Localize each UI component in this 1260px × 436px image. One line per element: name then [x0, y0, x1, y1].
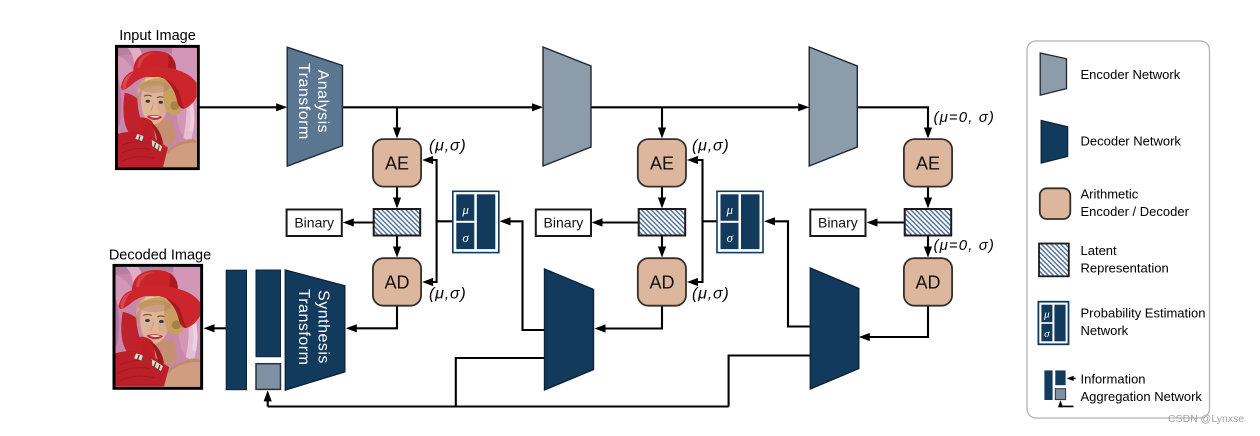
svg-text:Representation: Representation	[1081, 261, 1169, 276]
arrowhead into synthesis	[346, 324, 357, 332]
wire encoder2 to encoder3	[591, 106, 801, 108]
wire decoder2 aggregation branch	[456, 358, 545, 407]
latent3	[905, 209, 952, 236]
svg-text:Binary: Binary	[294, 215, 334, 231]
svg-text:μ: μ	[726, 202, 734, 217]
AD2	[638, 258, 686, 306]
arrowhead into mu-sigma1	[500, 217, 511, 225]
legend encoder icon	[1040, 53, 1066, 95]
svg-text:(μ,σ): (μ,σ)	[692, 138, 730, 155]
wire mu-sigma2 output to AE2/AD2	[703, 220, 718, 222]
arrowheads AE to latent to AD stage2	[658, 198, 666, 209]
arrowhead into decoded image	[204, 324, 215, 332]
svg-text:AE: AE	[916, 153, 940, 173]
wire AD2 to decoder2	[602, 306, 662, 329]
svg-text:μ: μ	[1043, 309, 1050, 321]
AE3	[904, 139, 952, 187]
svg-text:AD: AD	[649, 272, 674, 292]
legend decoder icon	[1041, 121, 1067, 164]
svg-text:σ: σ	[462, 230, 469, 245]
arrowhead into encoder3	[798, 103, 809, 111]
wire up into gray aggregation box	[267, 398, 269, 407]
svg-text:Latent: Latent	[1081, 243, 1118, 258]
arrowhead into AE1 top	[393, 128, 401, 139]
svg-text:(μ,σ): (μ,σ)	[692, 286, 730, 303]
svg-text:Encoder Network: Encoder Network	[1081, 67, 1181, 82]
svg-text:Aggregation Network: Aggregation Network	[1081, 389, 1203, 404]
svg-text:AD: AD	[384, 272, 409, 292]
mu-sigma network 1	[453, 191, 499, 252]
arrowhead into decoder2	[595, 324, 606, 332]
svg-text:σ: σ	[1044, 328, 1050, 340]
wire mu-sigma1 output to AE1/AD1	[437, 220, 453, 222]
arrowheads mu-sigma1 into AE1/AD1	[422, 156, 433, 164]
arrowhead into AE3 top	[924, 128, 932, 139]
arrowheads AE to latent to AD stage1	[393, 198, 401, 209]
svg-text:AE: AE	[650, 153, 674, 173]
wire bottom aggregation bus	[268, 405, 729, 407]
arrowhead into decoder3	[859, 333, 870, 341]
svg-text:(μ=0, σ): (μ=0, σ)	[934, 109, 996, 126]
AE2	[638, 139, 686, 187]
legend probability estimation icon	[1038, 302, 1068, 345]
svg-text:Transform: Transform	[295, 289, 312, 366]
svg-text:Decoder Network: Decoder Network	[1081, 134, 1182, 149]
arrowhead into mu-sigma2	[764, 217, 775, 225]
AE1	[373, 139, 421, 187]
wire input image to analysis transform	[199, 106, 279, 108]
decoder3	[810, 268, 859, 389]
svg-text:Encoder / Decoder: Encoder / Decoder	[1081, 204, 1190, 219]
arrowhead into AE2 top	[658, 128, 666, 139]
svg-text:Probability Estimation: Probability Estimation	[1081, 306, 1206, 321]
synthesis transform	[285, 270, 345, 390]
arrowheads mu-sigma2 into AE2/AD2	[687, 156, 698, 164]
input image	[117, 28, 199, 169]
arrowhead into gray aggregation box	[264, 390, 272, 401]
binary1	[287, 210, 342, 237]
arrowhead into analysis	[276, 103, 287, 111]
svg-text:(μ,σ): (μ,σ)	[429, 286, 467, 303]
AD1	[373, 258, 421, 306]
decoded image	[109, 248, 211, 389]
aggregation bar2	[256, 270, 281, 357]
svg-text:CSDN @Lynxse: CSDN @Lynxse	[1168, 413, 1244, 425]
wire bar1 to decoded image	[211, 327, 226, 329]
svg-text:Decoded Image: Decoded Image	[109, 248, 211, 264]
wire latent3 to binary3	[874, 221, 905, 223]
svg-text:μ: μ	[461, 202, 469, 217]
arrowhead into encoder2	[532, 103, 543, 111]
arrowhead into binary3	[867, 218, 878, 226]
wire AE1 to latent1	[396, 187, 398, 201]
wire AD1 to synthesis	[353, 306, 397, 329]
wire decoder2 to mu-sigma1 input	[507, 221, 545, 330]
svg-text:(μ,σ): (μ,σ)	[429, 138, 467, 155]
encoder3	[809, 47, 857, 166]
analysis transform	[287, 47, 342, 166]
legend panel	[1027, 41, 1210, 418]
wire drop to AE1	[396, 107, 398, 131]
wire decoder3 aggregation branch	[729, 356, 811, 407]
arrowhead into binary2	[592, 218, 603, 226]
latent2	[639, 209, 686, 236]
wire drop to AE2	[661, 107, 663, 131]
svg-text:Binary: Binary	[818, 215, 858, 231]
wire latent1 to binary1	[350, 221, 374, 223]
svg-text:(μ=0, σ): (μ=0, σ)	[934, 237, 996, 254]
decoder2	[545, 269, 594, 390]
svg-text:Information: Information	[1081, 371, 1146, 386]
wire latent2 to AD2	[661, 236, 663, 251]
svg-text:Synthesis: Synthesis	[314, 290, 331, 364]
svg-text:AE: AE	[385, 153, 409, 173]
arrowheads AE to latent to AD stage3	[924, 198, 932, 209]
wire latent2 to binary2	[599, 221, 639, 223]
aggregation bar1	[226, 270, 246, 390]
latent1	[374, 209, 421, 236]
legend information aggregation icon	[1044, 370, 1075, 407]
wire AE3 to latent3	[927, 187, 929, 201]
encoder2	[543, 47, 591, 166]
wire AE2 to latent2	[661, 187, 663, 201]
svg-text:Input Image: Input Image	[119, 28, 196, 44]
svg-text:Analysis: Analysis	[314, 70, 331, 134]
svg-text:Transform: Transform	[295, 63, 312, 140]
svg-text:σ: σ	[727, 230, 734, 245]
gray aggregation box	[256, 364, 281, 390]
svg-text:Binary: Binary	[544, 215, 584, 231]
math labels	[429, 109, 995, 303]
legend latent icon	[1039, 244, 1069, 277]
wire AD3 to decoder3	[867, 306, 928, 337]
wire analysis to encoder2	[343, 106, 536, 108]
svg-text:Network: Network	[1081, 323, 1129, 338]
wire decoder3 to mu-sigma2 input	[772, 221, 811, 326]
svg-text:AD: AD	[915, 272, 940, 292]
svg-text:Arithmetic: Arithmetic	[1081, 186, 1139, 201]
binary2	[536, 210, 591, 237]
mu-sigma network 2	[717, 191, 763, 252]
wire latent1 to AD1	[396, 236, 398, 251]
AD3	[904, 258, 952, 306]
wire latent3 to AD3	[927, 236, 929, 251]
arrowhead into binary1	[343, 218, 354, 226]
binary3	[810, 210, 865, 237]
legend arithmetic icon	[1040, 188, 1071, 219]
wire encoder3 to AE3 corner	[857, 107, 928, 130]
